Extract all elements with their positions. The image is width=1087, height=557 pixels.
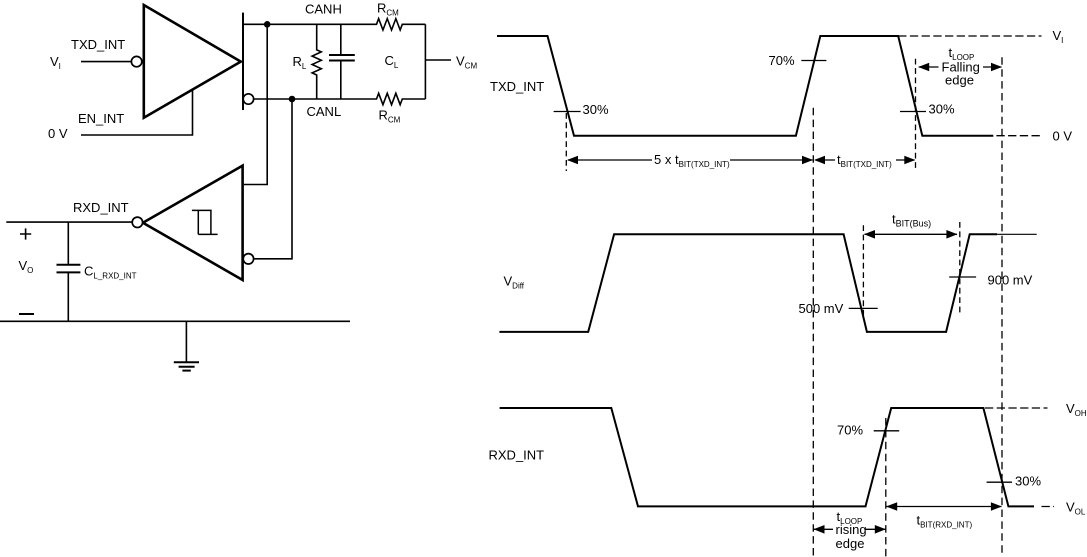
svg-text:500 mV: 500 mV (799, 301, 844, 316)
svg-text:EN_INT: EN_INT (78, 111, 124, 126)
svg-text:30%: 30% (929, 102, 955, 117)
svg-text:edge: edge (836, 536, 865, 551)
svg-text:TXD_INT: TXD_INT (490, 79, 544, 94)
svg-text:70%: 70% (769, 53, 795, 68)
svg-text:70%: 70% (837, 423, 863, 438)
svg-text:30%: 30% (583, 102, 609, 117)
svg-text:CANL: CANL (307, 104, 342, 119)
svg-text:RXD_INT: RXD_INT (73, 200, 129, 215)
svg-text:TXD_INT: TXD_INT (71, 37, 125, 52)
svg-text:CANH: CANH (305, 2, 342, 17)
svg-text:0 V: 0 V (48, 126, 68, 141)
svg-text:rising: rising (836, 522, 867, 537)
svg-text:edge: edge (945, 73, 974, 88)
svg-text:RXD_INT: RXD_INT (489, 448, 545, 463)
svg-text:30%: 30% (1015, 474, 1041, 489)
svg-text:900 mV: 900 mV (988, 273, 1033, 288)
svg-text:0 V: 0 V (1053, 128, 1073, 143)
